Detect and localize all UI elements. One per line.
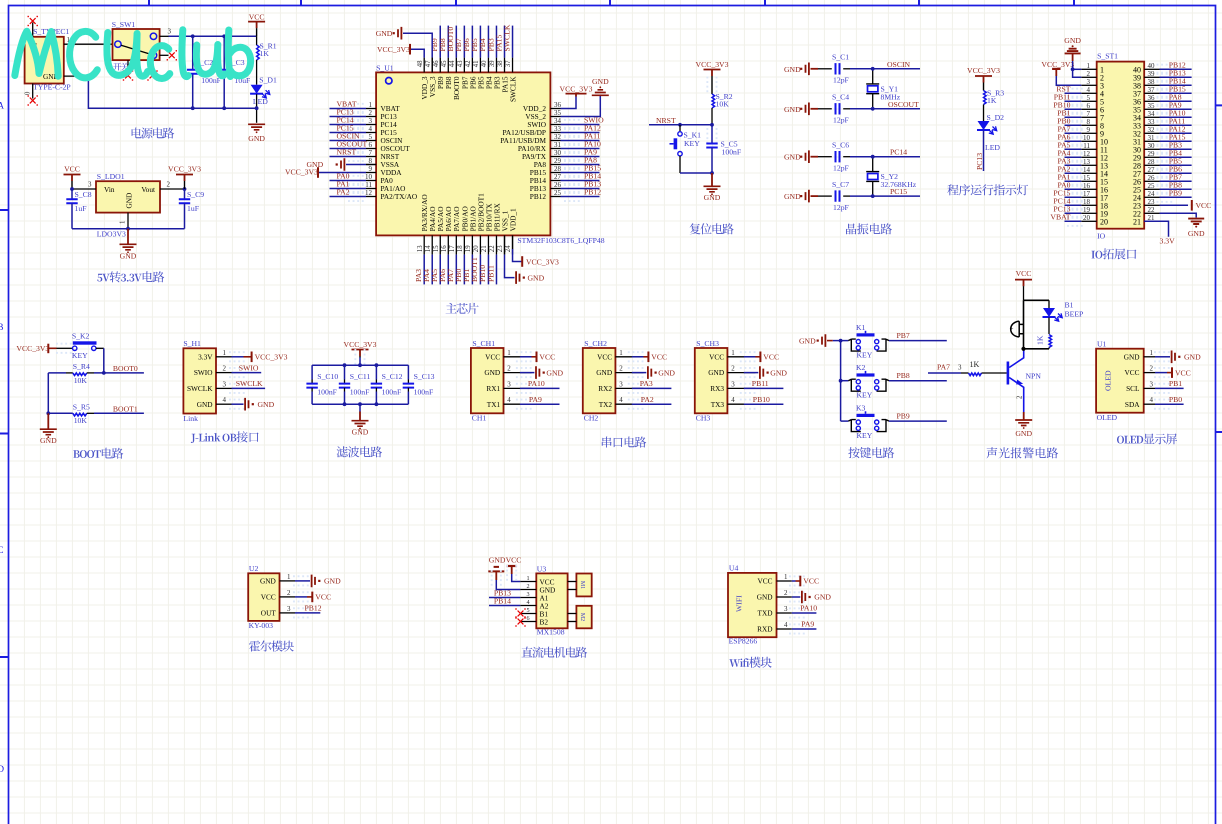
wire SWCLK bbox=[232, 387, 266, 389]
svg-text:3: 3 bbox=[1150, 380, 1154, 388]
IO header right pin 35 bbox=[1144, 108, 1159, 110]
title main chip bbox=[446, 303, 479, 314]
wire net BOOT1 bbox=[479, 255, 481, 285]
svg-text:1: 1 bbox=[369, 101, 373, 109]
capacitor S_C1 12pF bbox=[818, 68, 832, 70]
svg-text:VCC: VCC bbox=[651, 353, 667, 362]
svg-text:PB11: PB11 bbox=[752, 379, 769, 388]
IO header left pin 11 bbox=[1081, 148, 1096, 150]
LDO GND pin bbox=[127, 213, 129, 229]
chip top pin 46 PB9 bbox=[439, 58, 441, 73]
chip top pin 42 PB6 bbox=[471, 58, 473, 73]
svg-text:K3: K3 bbox=[856, 404, 866, 413]
wire PA10 wifi bbox=[792, 612, 817, 614]
svg-text:GND: GND bbox=[376, 29, 393, 38]
ground GND filter bbox=[359, 404, 361, 411]
svg-text:TX2: TX2 bbox=[599, 400, 613, 409]
svg-text:5: 5 bbox=[1087, 94, 1091, 102]
svg-text:STM32F103C8T6_LQFP48: STM32F103C8T6_LQFP48 bbox=[517, 236, 604, 245]
svg-text:42: 42 bbox=[465, 60, 472, 67]
svg-text:37: 37 bbox=[1148, 86, 1156, 94]
svg-text:M2: M2 bbox=[579, 613, 585, 621]
svg-text:25: 25 bbox=[1148, 182, 1156, 190]
pin 2 GND of TYPE-C bbox=[64, 75, 89, 77]
title sound light alarm bbox=[987, 447, 1059, 458]
svg-text:OSCIN: OSCIN bbox=[887, 60, 911, 69]
wire net PA6 bbox=[1065, 140, 1082, 142]
wire LED to GND bbox=[256, 94, 258, 123]
junction bbox=[222, 106, 226, 110]
wire net PC14 bbox=[330, 124, 367, 126]
resistor S_R3 1K bbox=[984, 91, 987, 105]
chip bottom pin 16 PA6/AO bbox=[447, 235, 449, 254]
chip right pin 29 PA8 bbox=[550, 164, 560, 166]
connector S_ST1 IO header body bbox=[1097, 62, 1145, 229]
wire PA9 wifi bbox=[792, 628, 817, 630]
svg-text:12pF: 12pF bbox=[833, 203, 849, 212]
svg-text:GND: GND bbox=[784, 65, 801, 74]
IO header right pin 36 bbox=[1144, 100, 1159, 102]
svg-text:3: 3 bbox=[223, 380, 227, 388]
svg-text:20: 20 bbox=[1100, 218, 1108, 227]
svg-text:S_R5: S_R5 bbox=[73, 402, 90, 411]
svg-text:VCC: VCC bbox=[261, 593, 276, 602]
junction bbox=[871, 67, 875, 71]
svg-text:VCC: VCC bbox=[709, 352, 724, 361]
wire PB8 bbox=[889, 380, 947, 382]
svg-text:38: 38 bbox=[497, 60, 504, 67]
svg-text:2: 2 bbox=[223, 365, 227, 373]
svg-text:GND: GND bbox=[1064, 36, 1081, 45]
svg-text:PA9: PA9 bbox=[529, 395, 542, 404]
buzzer B1 bbox=[1019, 321, 1023, 337]
svg-text:47: 47 bbox=[425, 60, 432, 67]
IO header right pin 34 bbox=[1144, 116, 1159, 118]
svg-text:NPN: NPN bbox=[1026, 371, 1042, 380]
chip left pin 3 PC14 bbox=[366, 124, 376, 126]
IO header right pin 27 bbox=[1144, 172, 1159, 174]
svg-text:12: 12 bbox=[1083, 150, 1091, 158]
svg-text:29: 29 bbox=[1148, 150, 1156, 158]
capacitor S_C3 10uF bbox=[219, 70, 230, 74]
svg-text:44: 44 bbox=[449, 60, 456, 67]
svg-text:1: 1 bbox=[527, 575, 530, 582]
wire net PB10 bbox=[487, 255, 489, 285]
svg-text:2: 2 bbox=[1017, 395, 1024, 399]
svg-text:4: 4 bbox=[784, 621, 788, 629]
motor connector M1 bbox=[576, 574, 591, 597]
svg-text:PA2: PA2 bbox=[641, 395, 654, 404]
wire net PB7 bbox=[463, 26, 465, 58]
wire net RST bbox=[1065, 92, 1082, 94]
title keys circuit bbox=[848, 447, 894, 458]
wire net SWCLK bbox=[512, 26, 514, 58]
IO header left pin 7 bbox=[1081, 116, 1096, 118]
svg-text:3: 3 bbox=[784, 605, 788, 613]
svg-text:RX1: RX1 bbox=[486, 384, 500, 393]
svg-text:PB14: PB14 bbox=[494, 597, 511, 606]
svg-text:GND: GND bbox=[1015, 429, 1032, 438]
svg-text:27: 27 bbox=[1148, 166, 1156, 174]
wire net PA15 bbox=[504, 26, 506, 58]
svg-text:VCC_3V3: VCC_3V3 bbox=[696, 60, 729, 69]
wire net PA3 bbox=[1065, 164, 1082, 166]
svg-text:5: 5 bbox=[369, 133, 373, 141]
wire net PB13 bbox=[1160, 76, 1192, 78]
connector S_TYPEC1 TYPE-C-2P bbox=[25, 37, 64, 84]
wire net PC13 bbox=[330, 116, 367, 118]
svg-text:SDA: SDA bbox=[1125, 400, 1140, 409]
svg-text:WIFI: WIFI bbox=[735, 595, 744, 612]
svg-text:12pF: 12pF bbox=[833, 76, 849, 85]
svg-text:2: 2 bbox=[527, 583, 530, 590]
svg-text:U1: U1 bbox=[1097, 340, 1107, 349]
svg-text:35: 35 bbox=[1148, 102, 1156, 110]
svg-text:1uF: 1uF bbox=[75, 204, 87, 213]
wire NRST bbox=[649, 124, 712, 126]
svg-text:VCC: VCC bbox=[1016, 269, 1032, 278]
wire net PA1 bbox=[1065, 180, 1082, 182]
wire net PC15 bbox=[330, 132, 367, 134]
IO header right pin 21 bbox=[1144, 220, 1159, 222]
MCUclub watermark logo bbox=[15, 30, 251, 79]
wire PB0 bbox=[1155, 403, 1184, 405]
svg-text:3: 3 bbox=[619, 380, 623, 388]
junction bbox=[343, 363, 347, 367]
wire net PB3 bbox=[1160, 148, 1192, 150]
chip top pin 40 PB4 bbox=[487, 58, 489, 73]
svg-text:1: 1 bbox=[619, 349, 623, 357]
svg-text:7: 7 bbox=[1087, 110, 1091, 118]
capacitor S_C11 100nF bbox=[344, 365, 346, 379]
svg-text:8MHz: 8MHz bbox=[881, 92, 901, 101]
wire PB13 bbox=[489, 597, 520, 599]
chip top pin 48 VDD_3 bbox=[423, 58, 425, 73]
wire net PA5 bbox=[439, 255, 441, 285]
wire cap C3 branch bbox=[223, 36, 225, 69]
chip right pin 35 VSS_2 bbox=[550, 116, 560, 118]
ground GND oled bbox=[1155, 356, 1170, 358]
junction bbox=[871, 194, 875, 198]
svg-text:CH1: CH1 bbox=[472, 414, 487, 423]
power VCC_3V3 at VDD_2 pin36 bbox=[561, 97, 577, 109]
svg-text:OLED: OLED bbox=[1097, 413, 1118, 422]
wire PC14 bbox=[850, 156, 920, 158]
svg-text:39: 39 bbox=[1148, 70, 1156, 78]
svg-text:PA3: PA3 bbox=[640, 379, 653, 388]
svg-text:4: 4 bbox=[223, 396, 227, 404]
svg-text:4: 4 bbox=[527, 599, 530, 606]
chip top pin 38 PA15 bbox=[504, 58, 506, 73]
svg-text:Link: Link bbox=[183, 414, 198, 423]
border zone ticks left bbox=[0, 210, 9, 657]
chip bottom pin 23 VSS_1 bbox=[504, 235, 506, 254]
svg-text:B2: B2 bbox=[540, 617, 549, 626]
wire net PA4 bbox=[431, 255, 433, 285]
svg-text:14: 14 bbox=[1083, 166, 1091, 174]
wire net PA8 bbox=[1160, 100, 1192, 102]
wire net PB4 bbox=[487, 26, 489, 58]
svg-text:9: 9 bbox=[1087, 126, 1091, 134]
svg-text:PB12: PB12 bbox=[530, 192, 547, 201]
svg-text:1: 1 bbox=[784, 573, 788, 581]
wire net PA2 bbox=[1065, 172, 1082, 174]
chip U4 ESP8266 body bbox=[728, 573, 777, 637]
capacitor S_C10 100nF bbox=[311, 365, 313, 379]
svg-text:16: 16 bbox=[1083, 182, 1091, 190]
wire net VBAT bbox=[1065, 220, 1082, 222]
svg-text:S_LDO1: S_LDO1 bbox=[97, 172, 125, 181]
svg-text:VCC_3V3: VCC_3V3 bbox=[344, 340, 377, 349]
svg-text:12pF: 12pF bbox=[833, 163, 849, 172]
motor connector M2 bbox=[576, 606, 591, 629]
svg-text:KEY: KEY bbox=[857, 391, 873, 400]
svg-text:GND: GND bbox=[528, 273, 545, 282]
junction bbox=[871, 107, 875, 111]
svg-text:1: 1 bbox=[507, 349, 511, 357]
svg-text:15: 15 bbox=[1083, 174, 1091, 182]
power VCC wifi bbox=[792, 580, 796, 582]
no-connect X top bbox=[30, 18, 36, 24]
resistor S_R2 10K bbox=[712, 94, 715, 108]
svg-text:GND: GND bbox=[814, 593, 831, 602]
ground GND hall bbox=[295, 580, 310, 582]
svg-text:25: 25 bbox=[554, 189, 562, 197]
ground GND CH1 bbox=[520, 372, 535, 374]
svg-text:VCC: VCC bbox=[506, 555, 522, 564]
svg-text:0: 0 bbox=[25, 91, 32, 95]
wire OSCOUT bbox=[850, 108, 920, 110]
svg-text:39: 39 bbox=[489, 60, 496, 67]
chip left pin 6 OSCOUT bbox=[366, 148, 376, 150]
svg-text:PC13: PC13 bbox=[975, 153, 984, 170]
capacitor S_C6 12pF bbox=[818, 156, 832, 158]
no-connect X bottom bbox=[30, 98, 36, 104]
chip bottom pin 20 PB2/BOOT1 bbox=[479, 235, 481, 254]
svg-text:100nF: 100nF bbox=[350, 387, 370, 396]
title 5V to 3.3V bbox=[97, 271, 164, 282]
wire net PB10 bbox=[1065, 108, 1082, 110]
wire net PB6 bbox=[471, 26, 473, 58]
wire net PA1 bbox=[330, 188, 367, 190]
svg-text:33: 33 bbox=[554, 125, 562, 133]
svg-text:17: 17 bbox=[1083, 190, 1091, 198]
chip bottom pin 14 PA4/AO bbox=[431, 235, 433, 254]
svg-text:M1: M1 bbox=[579, 581, 585, 589]
title serial port circuit bbox=[602, 437, 646, 448]
svg-text:PB11: PB11 bbox=[486, 265, 495, 282]
wire PA3 bbox=[632, 387, 672, 389]
svg-text:S_C7: S_C7 bbox=[832, 180, 849, 189]
svg-text:KEY: KEY bbox=[857, 431, 873, 440]
svg-text:SWIO: SWIO bbox=[194, 368, 213, 377]
switch label kaiguan bbox=[113, 63, 128, 71]
svg-text:S_CH3: S_CH3 bbox=[696, 339, 719, 348]
title power circuit bbox=[132, 128, 175, 139]
svg-text:34: 34 bbox=[554, 117, 562, 125]
junction bbox=[1071, 67, 1075, 71]
wire net PB13 bbox=[561, 188, 600, 190]
svg-text:VCC: VCC bbox=[1175, 368, 1191, 377]
title filter circuit bbox=[337, 446, 382, 457]
svg-text:GND: GND bbox=[546, 368, 563, 377]
svg-text:9: 9 bbox=[369, 165, 373, 173]
wire net PA7 bbox=[455, 255, 457, 285]
wire reset bottom bbox=[680, 172, 712, 174]
pin 0 bottom of TYPE-C bbox=[32, 84, 34, 99]
title crystal circuit bbox=[846, 223, 892, 234]
chip right pin 32 PA11/USB/DM bbox=[550, 140, 560, 142]
IO header left pin 2 bbox=[1081, 76, 1096, 78]
IO header right pin 33 bbox=[1144, 124, 1159, 126]
wire VCC rail power circuit bbox=[169, 35, 257, 37]
svg-text:45: 45 bbox=[441, 60, 448, 67]
chip top pin 43 PB7 bbox=[463, 58, 465, 73]
chip top pin 39 PB3 bbox=[495, 58, 497, 73]
IO header right pin 29 bbox=[1144, 156, 1159, 158]
chip right pin 27 PB14 bbox=[550, 180, 560, 182]
svg-text:NRST: NRST bbox=[656, 116, 676, 125]
wire net PA11 bbox=[1160, 124, 1192, 126]
chip bottom pin 17 PA7/AO bbox=[455, 235, 457, 254]
chip right pin 30 PA9/TX bbox=[550, 156, 560, 158]
svg-text:LDO3V3: LDO3V3 bbox=[97, 230, 126, 239]
svg-text:48: 48 bbox=[417, 60, 424, 67]
svg-text:3: 3 bbox=[507, 380, 511, 388]
svg-text:PA10: PA10 bbox=[528, 379, 545, 388]
svg-text:PA2/TX/AO: PA2/TX/AO bbox=[381, 192, 418, 201]
chip bottom pin 15 PA5/AO bbox=[439, 235, 441, 254]
svg-text:28: 28 bbox=[554, 165, 562, 173]
svg-text:33: 33 bbox=[1148, 118, 1156, 126]
svg-text:3: 3 bbox=[369, 117, 373, 125]
pin 3 of SW1 bbox=[160, 35, 169, 37]
svg-text:U2: U2 bbox=[249, 564, 259, 573]
svg-text:VBAT: VBAT bbox=[1050, 212, 1070, 221]
svg-text:10K: 10K bbox=[74, 376, 88, 385]
svg-text:VCC: VCC bbox=[597, 352, 612, 361]
wire OSCIN bbox=[850, 68, 920, 70]
svg-text:3: 3 bbox=[88, 180, 92, 188]
ground GND at VSS_2 pin35 bbox=[561, 96, 601, 117]
svg-text:5: 5 bbox=[527, 607, 530, 614]
transistor Q1 NPN bbox=[1007, 362, 1010, 385]
chip right pin 34 SWIO bbox=[550, 124, 560, 126]
chip bottom pin 19 PB1/AO bbox=[471, 235, 473, 254]
svg-text:CH2: CH2 bbox=[584, 414, 599, 423]
svg-text:35: 35 bbox=[554, 109, 562, 117]
svg-text:22: 22 bbox=[489, 245, 496, 252]
svg-text:K1: K1 bbox=[856, 323, 866, 332]
switch S_SW1 bbox=[113, 29, 160, 60]
svg-text:4: 4 bbox=[1150, 396, 1154, 404]
chip right pin 28 PB15 bbox=[550, 172, 560, 174]
svg-text:S_D2: S_D2 bbox=[987, 113, 1005, 122]
IO header left pin 20 bbox=[1081, 220, 1096, 222]
chip left pin 10 PA0 bbox=[366, 180, 376, 182]
chip left pin 1 VBAT bbox=[366, 108, 376, 110]
junction bbox=[191, 106, 195, 110]
svg-text:SWCLK: SWCLK bbox=[187, 384, 213, 393]
svg-text:SWCLK: SWCLK bbox=[502, 24, 511, 51]
svg-text:PB8: PB8 bbox=[897, 371, 910, 380]
svg-text:S_C10: S_C10 bbox=[317, 372, 338, 381]
svg-text:BOOT1: BOOT1 bbox=[113, 405, 138, 414]
wire key to BOOT0 bbox=[96, 347, 104, 349]
svg-text:1: 1 bbox=[1150, 349, 1154, 357]
svg-text:PC14: PC14 bbox=[890, 148, 907, 157]
svg-text:8: 8 bbox=[1087, 118, 1091, 126]
svg-text:PA2: PA2 bbox=[337, 188, 350, 197]
svg-text:PB12: PB12 bbox=[305, 604, 322, 613]
svg-text:S_C4: S_C4 bbox=[832, 93, 849, 102]
svg-text:PA9: PA9 bbox=[801, 620, 814, 629]
IO header left pin 17 bbox=[1081, 196, 1096, 198]
svg-text:VCC: VCC bbox=[539, 353, 555, 362]
junction bbox=[678, 123, 682, 127]
svg-text:1K: 1K bbox=[1036, 335, 1045, 345]
svg-text:S_C9: S_C9 bbox=[187, 190, 204, 199]
svg-text:19: 19 bbox=[1083, 206, 1091, 214]
op chip S_U1 STM32F103C8T6 body bbox=[376, 72, 550, 235]
chip bottom pin 21 PB10/TX bbox=[487, 235, 489, 254]
wire net PB12 bbox=[1160, 68, 1192, 70]
IO header left pin 9 bbox=[1081, 132, 1096, 134]
svg-text:GND: GND bbox=[799, 337, 816, 346]
svg-text:2: 2 bbox=[731, 365, 735, 373]
title DC motor circuit bbox=[522, 647, 588, 658]
junction bbox=[375, 402, 379, 406]
capacitor S_C5 100nF bbox=[711, 125, 713, 144]
svg-text:1: 1 bbox=[731, 349, 735, 357]
IO header right pin 32 bbox=[1144, 132, 1159, 134]
svg-text:3: 3 bbox=[287, 605, 291, 613]
chip bottom pin 22 PB11/RX bbox=[495, 235, 497, 254]
svg-text:S_C1: S_C1 bbox=[832, 53, 849, 62]
wire net PB15 bbox=[561, 172, 600, 174]
svg-text:1: 1 bbox=[223, 349, 227, 357]
chip left pin 4 PC15 bbox=[366, 132, 376, 134]
svg-text:GND: GND bbox=[704, 193, 721, 202]
chip left pin 12 PA2/TX/AO bbox=[366, 196, 376, 198]
border zone ticks right bbox=[1216, 105, 1222, 432]
svg-text:3: 3 bbox=[731, 380, 735, 388]
svg-text:13: 13 bbox=[1083, 158, 1091, 166]
chip top pin 44 BOOT0 bbox=[455, 58, 457, 73]
wire PA9 bbox=[520, 403, 560, 405]
svg-text:26: 26 bbox=[554, 181, 562, 189]
chip left pin 2 PC13 bbox=[366, 116, 376, 118]
svg-text:LED: LED bbox=[253, 97, 268, 106]
svg-text:6: 6 bbox=[1087, 102, 1091, 110]
wire PA2 bbox=[632, 403, 672, 405]
svg-text:VCC_3V3: VCC_3V3 bbox=[16, 344, 49, 353]
power VCC_3V3 at VDD_1 pin24 bbox=[512, 235, 514, 249]
crystal S_Y2 32.768KHz bbox=[872, 157, 874, 172]
wire net PB8 bbox=[447, 26, 449, 58]
svg-text:PA10: PA10 bbox=[800, 604, 817, 613]
IO header left pin 15 bbox=[1081, 180, 1096, 182]
IO header left pin 3 bbox=[1081, 84, 1096, 86]
wire net PA12 bbox=[1160, 132, 1192, 134]
svg-text:1K: 1K bbox=[987, 96, 997, 105]
svg-text:S_C8: S_C8 bbox=[75, 190, 92, 199]
svg-text:GND: GND bbox=[1188, 229, 1205, 238]
IO header right pin 30 bbox=[1144, 148, 1159, 150]
svg-text:RX2: RX2 bbox=[598, 384, 612, 393]
svg-text:2: 2 bbox=[619, 365, 623, 373]
svg-text:VCC_3V3: VCC_3V3 bbox=[526, 257, 559, 266]
